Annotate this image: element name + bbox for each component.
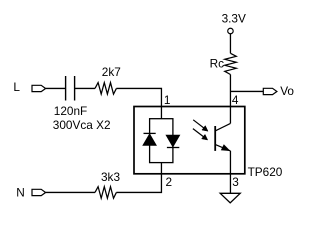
wire pin 2 from LED loop to N net: [116, 163, 161, 193]
svg-text:2: 2: [166, 175, 173, 189]
resistor R1 zigzag: [95, 83, 116, 95]
svg-text:L: L: [13, 80, 20, 94]
terminal tag Vo: [263, 88, 277, 94]
wire L tag to capacitor C1: [46, 87, 65, 89]
wire R1 to pin 1: [116, 88, 161, 118]
svg-text:120nF: 120nF: [54, 104, 87, 118]
wire Rc to pin 4 through Vo junction: [229, 75, 231, 107]
ground symbol: [220, 193, 240, 203]
phototransistor Q1 base bar: [214, 126, 216, 151]
svg-text:3k3: 3k3: [101, 170, 120, 184]
svg-text:N: N: [16, 186, 25, 200]
svg-text:300Vca X2: 300Vca X2: [53, 118, 111, 132]
wire pin 3 to ground: [229, 151, 231, 193]
svg-text:3: 3: [232, 175, 239, 189]
LED pair parallel loop rectangle: [150, 119, 173, 163]
wire R2 to N tag: [46, 191, 95, 193]
resistor Rc zigzag: [225, 53, 237, 74]
LED D2 downward (right branch): [166, 135, 179, 147]
svg-text:TP620: TP620: [248, 165, 283, 179]
wire supply circle to Rc: [229, 34, 231, 53]
wire pin 4 into box: [229, 107, 231, 124]
svg-text:Vo: Vo: [280, 84, 294, 98]
light arrow 1: [193, 120, 208, 131]
resistor R2 zigzag: [95, 187, 116, 199]
svg-text:1: 1: [164, 93, 171, 107]
svg-text:2k7: 2k7: [102, 65, 121, 79]
LED D1 upward (left branch): [143, 133, 156, 145]
wire C1 to resistor R1: [75, 87, 95, 89]
svg-text:3.3V: 3.3V: [222, 11, 246, 25]
svg-text:Rc: Rc: [210, 57, 225, 71]
optocoupler U1 body box: [134, 107, 245, 174]
terminal tag N: [32, 189, 46, 195]
terminal tag L: [32, 85, 46, 91]
supply terminal circle: [228, 28, 234, 34]
capacitor C1 plates: [66, 76, 75, 101]
svg-text:4: 4: [232, 93, 239, 107]
light arrow 2: [193, 129, 208, 140]
phototransistor Q1 emitter: [216, 145, 231, 151]
phototransistor Q1 emitter arrowhead: [221, 145, 230, 151]
phototransistor Q1 collector: [216, 123, 231, 130]
wire Vo tap: [230, 90, 263, 92]
